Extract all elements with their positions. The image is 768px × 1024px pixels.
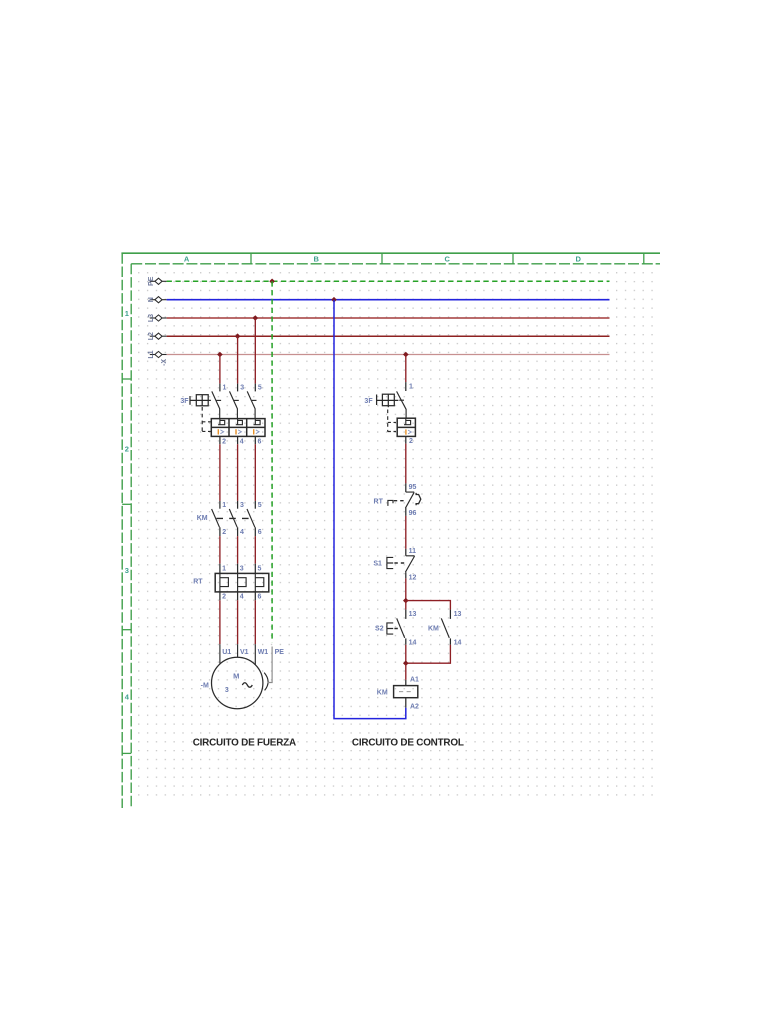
wire L3 to breaker pole 5 [254,318,256,384]
svg-text:1: 1 [222,502,226,509]
svg-text:C: C [444,255,450,264]
svg-text:2: 2 [222,439,226,446]
bus line PE [167,280,610,282]
svg-text:M: M [233,672,239,681]
pushbutton S2 blade [397,618,405,638]
breaker 3F pole crossbar 5 [252,399,257,401]
frame outer top border [121,252,660,254]
KM aux contact terminal 14 [449,638,451,644]
RT NC contact release hook [416,493,421,505]
wire N return blue [334,300,406,719]
node junction N [331,297,337,303]
breaker 3F pole terminal 3 [237,384,239,392]
wire breaker to KM pole 4 [237,444,239,501]
motor terminal U1 [219,644,221,663]
node junction L3 [253,315,259,321]
frame column tick 1 [250,253,252,264]
wire PE to motor gray [268,647,273,683]
thermal relay RT top terminal 1 [219,564,221,574]
breaker 3F magnetic element I> pole 6 [253,429,254,434]
pushbutton S1 terminal 11 [405,549,407,556]
svg-text:5: 5 [258,385,262,392]
node junction L2 [235,333,241,339]
wire breaker to RT contact [405,444,407,484]
svg-text:-X: -X [161,359,168,366]
wire RT to motor 2 [219,600,221,644]
thermal relay RT box [215,573,269,592]
wire L2 to breaker pole 3 [237,336,239,383]
thermal relay RT bottom terminal 4 [237,592,239,600]
node junction coil top [403,660,409,666]
contactor KM bottom terminal 4 [237,527,239,536]
breaker 3F (control) handle [377,394,399,407]
thermal relay RT top terminal 5 [254,564,256,574]
svg-text:CIRCUITO DE CONTROL: CIRCUITO DE CONTROL [352,737,464,748]
bus line L2 [167,335,610,337]
svg-text:RT: RT [374,498,384,505]
breaker 3F (control) linkage dashed [388,410,396,432]
svg-text:96: 96 [409,510,417,517]
contactor KM contact blade 5-6 [247,509,255,527]
wire PE drop dashed green [271,281,273,642]
motor sine symbol [242,683,252,688]
svg-text:KM: KM [377,690,388,697]
wire junction to S2 [405,601,407,610]
svg-text:5: 5 [258,502,262,509]
wire KM to RT pole 4 [237,536,239,564]
svg-text:A: A [184,255,190,264]
thermal relay RT element pole 3 [237,573,239,592]
svg-text:D: D [575,255,581,264]
contactor KM contact terminal 3 [237,501,239,509]
wire branch top to KM aux [406,601,451,610]
svg-text:A2: A2 [410,704,419,711]
svg-text:4: 4 [240,529,244,536]
breaker 3F (control) trip unit box [397,418,415,436]
breaker 3F magnetic element I> pole 4 [235,429,236,434]
breaker 3F (control) terminal 2 [405,436,407,443]
wire L1 to control breaker [405,355,407,383]
node junction L1 control [403,352,409,358]
svg-text:3: 3 [240,385,244,392]
thermal relay RT bottom terminal 2 [219,592,221,600]
breaker 3F bottom terminal 6 [254,436,256,444]
breaker 3F thermal element pole 5 [254,419,261,425]
motor PE arc [264,673,268,691]
breaker 3F pole blade 1 [212,391,220,418]
contactor KM contact terminal 5 [254,501,256,509]
svg-text:N: N [148,297,155,302]
svg-text:3: 3 [240,566,244,573]
coil KM terminal A2 [405,698,407,708]
svg-text:1: 1 [409,384,413,391]
contactor KM bottom terminal 2 [219,527,221,536]
pushbutton S1 blade [405,556,414,572]
coil KM inner dashes [399,691,413,693]
contactor KM linkage dashed [216,517,250,519]
coil KM box [394,686,418,698]
svg-text:13: 13 [409,611,417,618]
breaker 3F pole blade 3 [230,391,238,418]
pushbutton S2 terminal 13 [405,610,407,619]
frame outer left border [121,253,123,808]
frame row tick 3 [122,629,131,631]
frame column tick 3 [512,253,514,264]
node junction PE / vertical PE drop [269,279,275,285]
svg-text:1: 1 [125,309,129,318]
wire S2 to junction bottom [405,645,407,663]
RT NC contact actuator dashed [394,500,404,502]
svg-text:13: 13 [454,611,462,618]
svg-text:6: 6 [258,594,262,601]
breaker 3F pole crossbar 1 [216,399,221,401]
svg-text:S2: S2 [375,626,384,633]
wire breaker to KM pole 6 [254,444,256,501]
svg-text:PE: PE [148,276,155,286]
breaker 3F bottom terminal 4 [237,436,239,444]
svg-text:L2: L2 [148,332,155,340]
svg-text:A1: A1 [410,676,419,683]
breaker 3F thermal element pole 1 [218,419,225,425]
thermal relay RT bottom terminal 6 [254,592,256,600]
svg-text:6: 6 [258,439,262,446]
svg-text:4: 4 [240,439,244,446]
svg-text:-M: -M [201,682,209,689]
pushbutton S2 terminal 14 [405,638,407,644]
bus line L1 [167,354,610,356]
svg-text:KM: KM [428,626,439,633]
svg-text:1: 1 [222,566,226,573]
svg-text:2: 2 [125,444,129,453]
wire junction to coil [405,663,407,680]
bus line L3 [167,317,610,319]
svg-text:3: 3 [225,687,229,694]
frame row tick 4 [122,752,131,754]
svg-text:3F: 3F [364,398,373,405]
svg-text:2: 2 [409,438,413,445]
bus terminal diamond L2 [150,335,155,337]
frame inner top border [131,263,660,265]
wire KM to RT pole 2 [219,536,221,564]
svg-text:V1: V1 [240,649,249,656]
breaker 3F pole terminal 5 [254,384,256,392]
svg-text:2: 2 [222,529,226,536]
svg-text:KM: KM [197,515,208,522]
bus terminal diamond N [150,299,155,301]
breaker 3F pole terminal 1 [219,384,221,392]
motor M circle [212,657,263,708]
svg-text:4: 4 [240,594,244,601]
KM aux contact blade [441,618,449,638]
thermal relay RT top terminal 3 [237,564,239,574]
svg-text:14: 14 [454,639,462,646]
motor terminal V1 [237,644,239,657]
contactor KM contact terminal 1 [219,501,221,509]
svg-text:3: 3 [125,566,129,575]
RT NC contact terminal 95 [405,483,407,492]
breaker 3F (power) linkage dashed [202,407,210,432]
svg-text:6: 6 [258,529,262,536]
pushbutton S1 terminal 12 [405,572,407,578]
RT NC contact blade [405,492,414,508]
breaker 3F trip unit box [211,419,265,437]
KM aux contact terminal 13 [449,610,451,619]
svg-text:12: 12 [409,575,417,582]
coil KM terminal A1 [405,680,407,686]
breaker 3F pole crossbar 3 [234,399,239,401]
breaker 3F pole blade 5 [247,391,255,418]
svg-text:3F: 3F [180,398,189,405]
breaker 3F (control) blade [397,391,407,417]
svg-text:PE: PE [275,649,285,656]
svg-text:S1: S1 [373,561,382,568]
svg-text:L1: L1 [148,350,155,358]
svg-text:2: 2 [222,594,226,601]
node junction S2/KM top [403,598,409,604]
pushbutton S2 actuator dashed [394,628,401,630]
breaker 3F magnetic element I> pole 2 [218,429,219,434]
RT NC contact terminal 96 [405,508,407,516]
contactor KM bottom terminal 6 [254,527,256,536]
thermal relay RT element pole 1 [219,573,221,592]
breaker 3F (power) handle [190,395,211,406]
breaker 3F bottom terminal 2 [219,436,221,444]
breaker 3F (control) terminal 1 [405,382,407,391]
svg-text:RT: RT [193,579,203,586]
frame column tick 4 [643,253,645,264]
svg-text:11: 11 [409,548,417,555]
bus line N [167,299,610,301]
wire RT contact to S1 [405,516,407,549]
breaker 3F (control) thermal element [404,418,411,425]
pushbutton S1 actuator [387,557,393,568]
motor terminal W1 [254,644,256,665]
bus terminal diamond PE [150,280,155,282]
contactor KM contact blade 1-2 [212,509,220,527]
svg-text:5: 5 [258,566,262,573]
wire S1 to junction [405,578,407,600]
pushbutton S2 actuator [387,623,393,634]
wire RT to motor 4 [237,600,239,644]
node junction L1 power [217,352,223,358]
svg-text:B: B [313,255,319,264]
svg-text:3: 3 [240,502,244,509]
frame row tick 2 [122,503,131,505]
wire L1 to breaker pole 1 [219,355,221,384]
pushbutton S1 actuator dashed [394,562,404,564]
svg-text:U1: U1 [222,649,231,656]
breaker 3F (control) magnetic element I> [405,429,406,434]
wire RT to motor 6 [254,600,256,644]
svg-text:95: 95 [409,484,417,491]
wire breaker to KM pole 2 [219,444,221,501]
wire KM aux to junction bottom [406,645,451,663]
wire KM to RT pole 6 [254,536,256,564]
thermal relay RT element pole 5 [254,573,256,592]
breaker 3F thermal element pole 3 [236,419,243,425]
svg-text:1: 1 [223,385,227,392]
grid dots [135,267,653,798]
RT NC contact trip symbol [388,500,393,506]
frame row tick 1 [122,378,131,380]
frame column tick 2 [381,253,383,264]
contactor KM contact blade 3-4 [229,509,237,527]
svg-text:14: 14 [409,639,417,646]
bus terminal diamond L3 [150,317,155,319]
bus terminal diamond L1 [150,354,155,356]
svg-text:CIRCUITO DE FUERZA: CIRCUITO DE FUERZA [193,737,296,748]
frame inner left border [130,264,132,808]
svg-text:W1: W1 [258,649,269,656]
breaker 3F (control) crossbar [399,399,404,401]
svg-text:L3: L3 [148,314,155,322]
